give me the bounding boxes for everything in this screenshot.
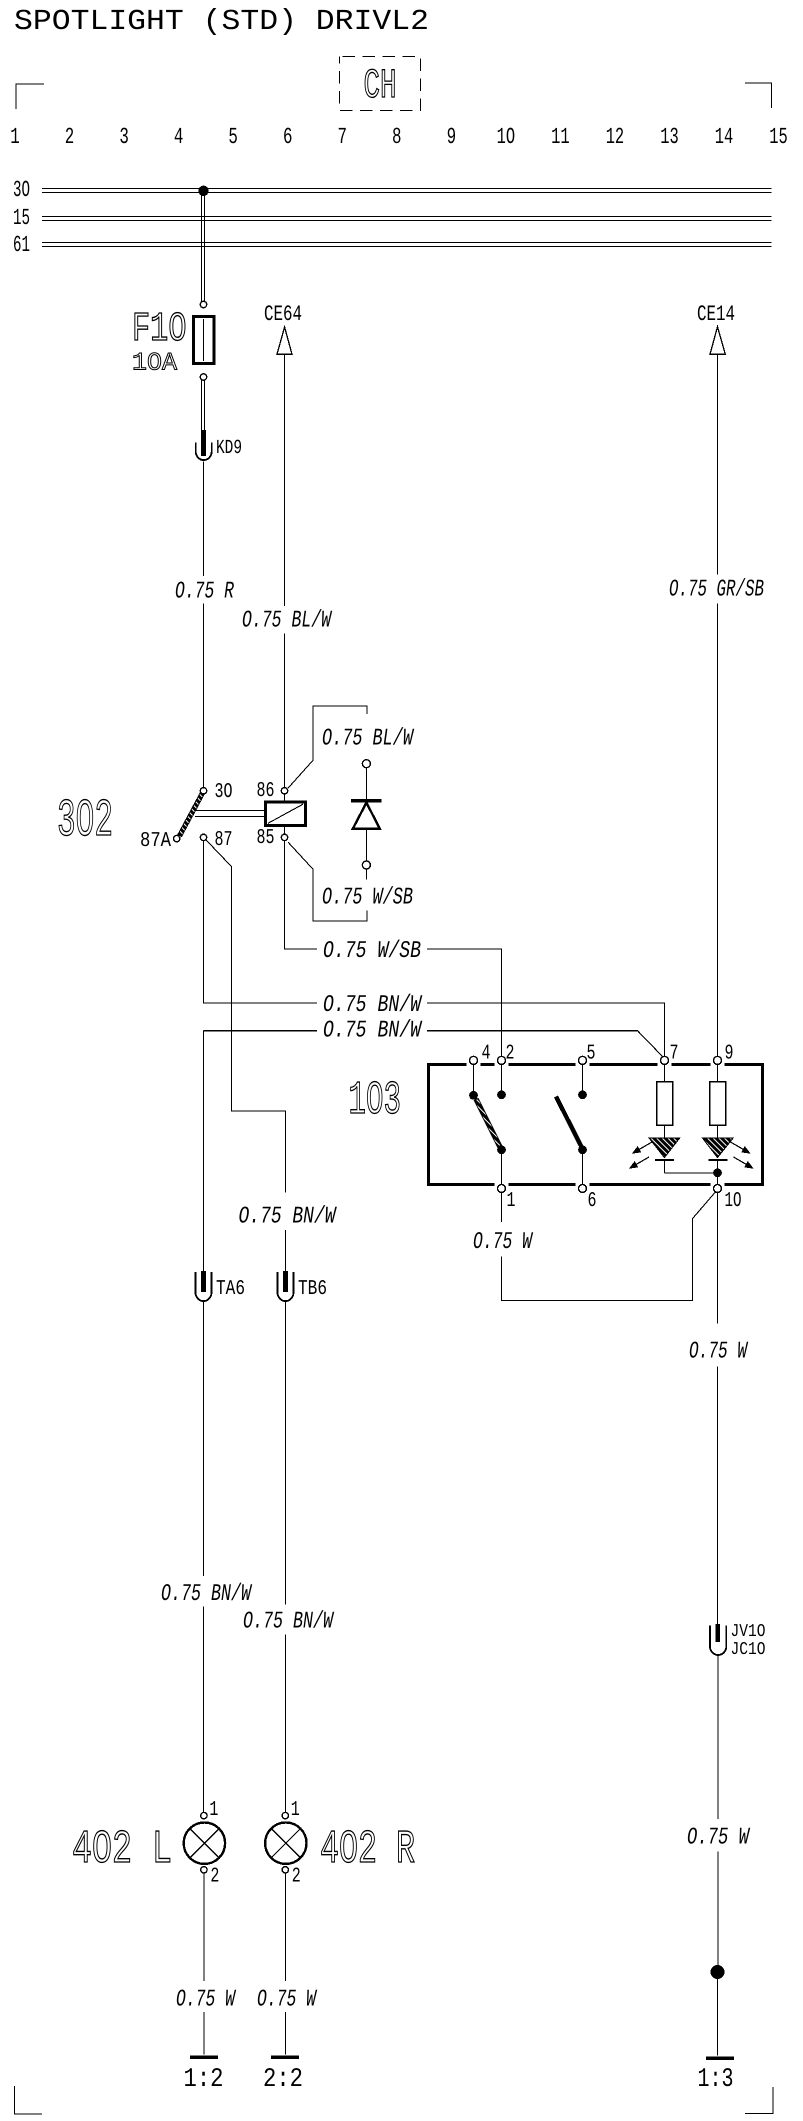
svg-text:1:2: 1:2 — [184, 2065, 224, 2095]
svg-text:F1O: F1O — [132, 307, 187, 353]
svg-text:O.75 GR/SB: O.75 GR/SB — [669, 577, 764, 604]
svg-text:87: 87 — [215, 829, 233, 852]
svg-text:1: 1 — [507, 1190, 516, 1213]
svg-text:87A: 87A — [140, 830, 171, 853]
svg-text:4O2 R: 4O2 R — [320, 1824, 415, 1877]
svg-text:7: 7 — [337, 124, 347, 150]
svg-text:3: 3 — [119, 124, 129, 150]
svg-text:SPOTLIGHT (STD) DRIVL2: SPOTLIGHT (STD) DRIVL2 — [14, 5, 429, 38]
svg-text:4O2 L: 4O2 L — [72, 1824, 172, 1877]
svg-text:O.75 BL/W: O.75 BL/W — [242, 608, 333, 635]
svg-text:O.75 BN/W: O.75 BN/W — [243, 1609, 335, 1636]
svg-text:4: 4 — [174, 124, 184, 150]
svg-text:1:3: 1:3 — [698, 2065, 734, 2095]
svg-text:7: 7 — [670, 1043, 679, 1066]
svg-text:TB6: TB6 — [298, 1278, 327, 1301]
svg-text:15: 15 — [769, 124, 788, 150]
svg-text:CE64: CE64 — [264, 302, 302, 327]
svg-text:O.75 W/SB: O.75 W/SB — [323, 938, 421, 965]
svg-text:14: 14 — [715, 124, 734, 150]
svg-text:CE14: CE14 — [697, 302, 735, 327]
svg-text:3O: 3O — [215, 781, 233, 804]
svg-text:O.75 W: O.75 W — [687, 1825, 751, 1852]
svg-text:8: 8 — [392, 124, 402, 150]
svg-text:5: 5 — [228, 124, 238, 150]
svg-text:O.75 BL/W: O.75 BL/W — [322, 726, 415, 753]
svg-text:3O: 3O — [13, 177, 30, 203]
svg-text:12: 12 — [606, 124, 625, 150]
svg-text:O.75 BN/W: O.75 BN/W — [239, 1204, 338, 1231]
svg-text:4: 4 — [482, 1043, 491, 1066]
svg-text:KD9: KD9 — [216, 437, 242, 460]
svg-text:1: 1 — [209, 1799, 218, 1822]
svg-text:13: 13 — [660, 124, 679, 150]
svg-text:9: 9 — [725, 1043, 734, 1066]
svg-text:O.75 BN/W: O.75 BN/W — [323, 992, 423, 1019]
svg-text:O.75 W: O.75 W — [473, 1229, 534, 1256]
svg-text:15: 15 — [13, 205, 30, 231]
svg-text:2: 2 — [210, 1866, 219, 1889]
svg-text:6: 6 — [283, 124, 293, 150]
svg-text:1: 1 — [10, 124, 20, 150]
svg-text:86: 86 — [257, 780, 275, 803]
svg-text:2: 2 — [65, 124, 75, 150]
svg-text:O.75 BN/W: O.75 BN/W — [161, 1581, 253, 1608]
svg-text:2: 2 — [292, 1866, 301, 1889]
svg-text:O.75 BN/W: O.75 BN/W — [323, 1018, 423, 1045]
svg-text:O.75 W: O.75 W — [257, 1987, 318, 2014]
svg-text:1O3: 1O3 — [349, 1075, 402, 1128]
svg-text:O.75 W/SB: O.75 W/SB — [322, 885, 413, 912]
svg-text:1O: 1O — [497, 124, 516, 150]
svg-text:2:2: 2:2 — [263, 2065, 303, 2095]
svg-text:1O: 1O — [725, 1190, 742, 1213]
svg-text:JV1O: JV1O — [731, 1622, 766, 1642]
svg-text:85: 85 — [257, 827, 275, 850]
svg-text:1OA: 1OA — [132, 349, 177, 378]
svg-text:5: 5 — [587, 1043, 596, 1066]
svg-text:1: 1 — [291, 1799, 300, 1822]
svg-text:O.75 W: O.75 W — [689, 1339, 749, 1366]
svg-text:TA6: TA6 — [216, 1278, 245, 1301]
svg-text:JC1O: JC1O — [731, 1640, 766, 1660]
svg-text:CH: CH — [364, 63, 397, 110]
svg-text:2: 2 — [506, 1043, 515, 1066]
svg-text:O.75 W: O.75 W — [176, 1987, 237, 2014]
svg-text:O.75 R: O.75 R — [175, 579, 234, 606]
svg-text:61: 61 — [13, 232, 30, 258]
svg-text:6: 6 — [588, 1190, 597, 1213]
svg-text:9: 9 — [447, 124, 457, 150]
svg-text:3O2: 3O2 — [57, 791, 113, 851]
svg-text:11: 11 — [551, 124, 570, 150]
